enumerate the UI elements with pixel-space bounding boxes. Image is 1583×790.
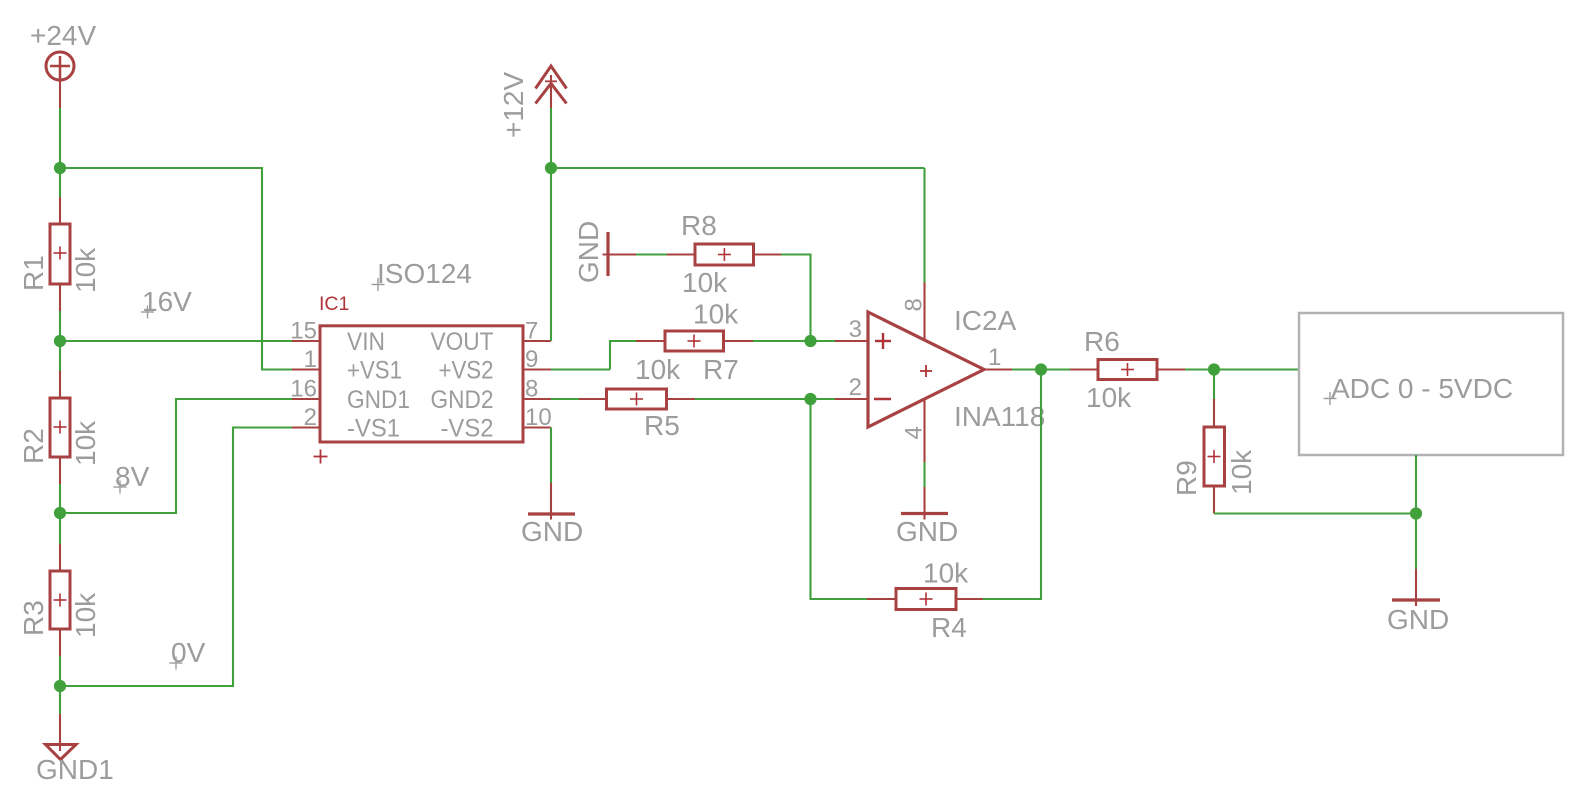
svg-text:2: 2 <box>849 374 862 401</box>
svg-text:R8: R8 <box>681 210 717 241</box>
svg-text:-VS1: -VS1 <box>347 415 400 443</box>
svg-text:8: 8 <box>901 298 928 311</box>
svg-text:10k: 10k <box>1086 382 1132 413</box>
svg-text:R6: R6 <box>1084 326 1120 357</box>
svg-text:VOUT: VOUT <box>431 328 494 356</box>
svg-text:ADC 0 - 5VDC: ADC 0 - 5VDC <box>1331 373 1513 404</box>
svg-text:GND1: GND1 <box>347 386 410 414</box>
svg-text:1: 1 <box>988 344 1001 371</box>
svg-text:15: 15 <box>290 318 317 345</box>
svg-text:10k: 10k <box>923 558 969 589</box>
svg-text:3: 3 <box>849 316 862 343</box>
svg-text:9: 9 <box>525 346 538 373</box>
svg-text:R1: R1 <box>18 255 49 291</box>
svg-text:GND: GND <box>521 516 583 547</box>
svg-text:10k: 10k <box>70 420 101 466</box>
svg-text:GND: GND <box>573 221 604 283</box>
svg-text:GND: GND <box>896 516 958 547</box>
svg-text:R2: R2 <box>18 428 49 464</box>
svg-text:16V: 16V <box>142 286 192 317</box>
svg-text:R9: R9 <box>1171 460 1202 496</box>
svg-text:R3: R3 <box>18 600 49 636</box>
svg-text:VIN: VIN <box>347 328 385 356</box>
svg-text:10k: 10k <box>635 354 681 385</box>
svg-text:10k: 10k <box>70 247 101 293</box>
svg-text:ISO124: ISO124 <box>377 258 472 289</box>
svg-text:R4: R4 <box>931 612 967 643</box>
svg-text:16: 16 <box>290 376 317 403</box>
svg-text:R5: R5 <box>644 410 680 441</box>
svg-text:GND: GND <box>1387 604 1449 635</box>
svg-text:10k: 10k <box>70 592 101 638</box>
svg-text:1: 1 <box>304 346 317 373</box>
svg-text:10k: 10k <box>693 299 739 330</box>
svg-text:GND2: GND2 <box>431 386 494 414</box>
svg-text:R7: R7 <box>703 354 739 385</box>
svg-text:8V: 8V <box>115 461 150 492</box>
svg-text:+24V: +24V <box>30 20 96 51</box>
svg-text:GND1: GND1 <box>36 754 114 785</box>
svg-text:10: 10 <box>525 404 552 431</box>
svg-text:7: 7 <box>525 318 538 345</box>
svg-text:8: 8 <box>525 376 538 403</box>
svg-text:-VS2: -VS2 <box>441 415 494 443</box>
svg-text:+VS2: +VS2 <box>439 357 494 385</box>
svg-text:10k: 10k <box>682 267 728 298</box>
svg-text:IC1: IC1 <box>319 293 349 315</box>
svg-text:IC2A: IC2A <box>954 305 1017 336</box>
svg-text:+12V: +12V <box>498 72 529 138</box>
svg-text:INA118: INA118 <box>954 401 1045 432</box>
svg-text:0V: 0V <box>171 637 206 668</box>
svg-text:+VS1: +VS1 <box>347 357 402 385</box>
svg-text:2: 2 <box>304 404 317 431</box>
svg-text:10k: 10k <box>1226 449 1257 495</box>
